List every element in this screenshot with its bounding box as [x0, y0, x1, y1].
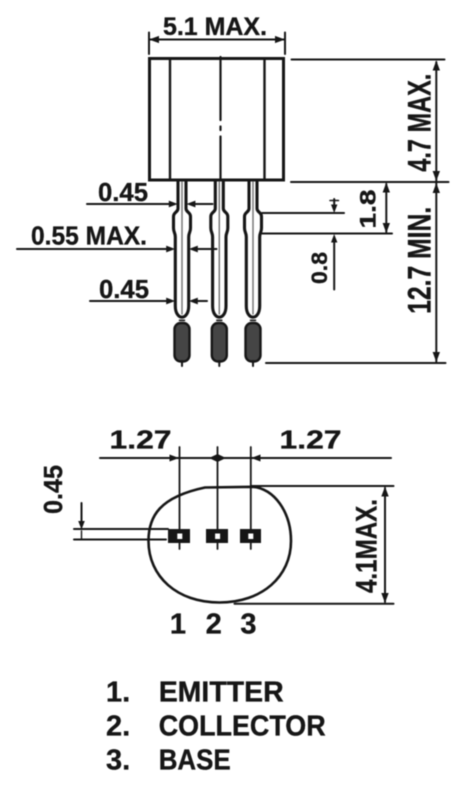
pad 2 (collector) — [206, 529, 228, 543]
svg-text:4.1MAX.: 4.1MAX. — [350, 499, 383, 593]
dimension 0.45 (upper left) — [87, 177, 213, 207]
svg-text:1.27: 1.27 — [110, 425, 172, 455]
svg-text:EMITTER: EMITTER — [159, 677, 284, 709]
dimension 0.8 (right of lead 3) — [262, 199, 344, 290]
svg-text:0.8: 0.8 — [307, 252, 332, 284]
lead tips extension line (bottom right) — [266, 362, 446, 364]
package body (front view) — [150, 59, 284, 181]
svg-text:2: 2 — [206, 609, 222, 641]
dimension 0.45 (lower left) — [90, 274, 207, 304]
svg-text:1: 1 — [170, 609, 186, 641]
svg-text:3.: 3. — [106, 745, 130, 777]
svg-text:1.27: 1.27 — [280, 425, 342, 455]
pad 3 (base) — [240, 529, 261, 543]
body center chain line — [219, 57, 221, 180]
svg-text:4.7 MAX.: 4.7 MAX. — [402, 74, 438, 172]
svg-text:0.55 MAX.: 0.55 MAX. — [31, 221, 147, 251]
svg-text:3: 3 — [240, 609, 256, 641]
svg-text:0.45: 0.45 — [38, 465, 68, 514]
svg-text:COLLECTOR: COLLECTOR — [159, 711, 326, 743]
dimension 4.7 MAX. (right) — [292, 60, 445, 182]
svg-text:1.8: 1.8 — [356, 190, 381, 229]
lead 3 (base) upper segment — [245, 180, 262, 366]
lead 1 (emitter) upper segment — [174, 180, 191, 366]
dimension 4.1MAX. (bottom view right) — [235, 486, 394, 604]
dimension 5.1 MAX. — [149, 13, 285, 54]
svg-text:0.45: 0.45 — [99, 274, 149, 304]
svg-text:BASE: BASE — [159, 745, 231, 777]
lead 2 (collector) upper segment — [211, 180, 228, 366]
dimension 12.7 MIN. (right) — [402, 183, 441, 362]
svg-text:2.: 2. — [106, 711, 130, 743]
dimension 1.27 line (bottom view top) — [100, 425, 391, 463]
bottom view package outline — [149, 487, 292, 603]
dimension 0.55 MAX. (left) — [17, 221, 217, 253]
body bottom extension line (right) — [291, 181, 449, 183]
svg-text:0.45: 0.45 — [98, 177, 148, 207]
svg-text:12.7 MIN.: 12.7 MIN. — [402, 207, 438, 314]
pad 1 (emitter) — [168, 529, 190, 543]
dimension 0.45 (pad, bottom view left) — [38, 465, 168, 540]
svg-text:5.1 MAX.: 5.1 MAX. — [163, 13, 267, 41]
dimension 1.8 (right of lead 3) — [262, 183, 392, 234]
pad extension lines — [180, 447, 251, 549]
svg-text:1.: 1. — [106, 677, 130, 709]
